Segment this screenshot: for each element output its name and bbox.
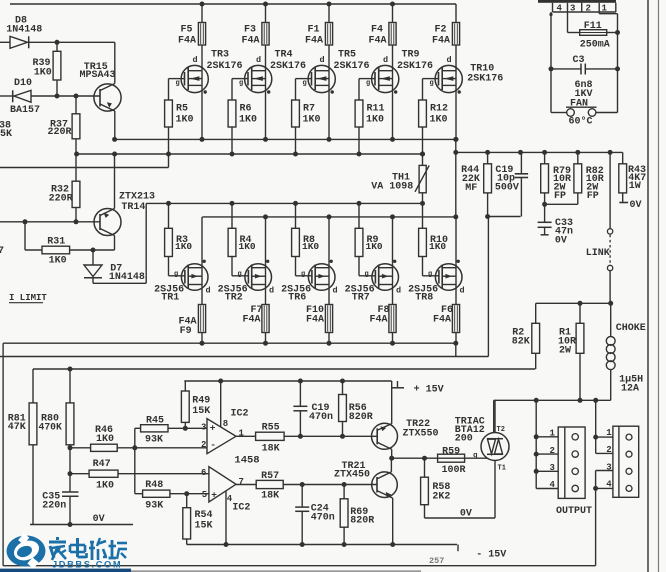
svg-text:T1: T1 — [498, 465, 506, 473]
svg-text:15K: 15K — [192, 406, 210, 417]
svg-text:+: + — [210, 423, 216, 434]
svg-text:18K: 18K — [262, 444, 280, 455]
svg-text:R7: R7 — [303, 104, 315, 115]
svg-text:TR7: TR7 — [352, 292, 370, 303]
svg-text:d: d — [206, 286, 211, 296]
svg-text:g: g — [239, 80, 243, 88]
svg-text:R55: R55 — [262, 423, 280, 434]
svg-text:d: d — [320, 55, 325, 65]
svg-text:1N4148: 1N4148 — [6, 24, 42, 35]
svg-text:2: 2 — [606, 445, 611, 455]
svg-text:1: 1 — [550, 429, 556, 439]
svg-text:F4A: F4A — [243, 314, 261, 325]
svg-text:D10: D10 — [14, 78, 32, 89]
svg-text:470n: 470n — [311, 512, 335, 523]
svg-text:F9: F9 — [180, 326, 192, 337]
svg-text:4: 4 — [550, 480, 556, 490]
svg-text:1K0: 1K0 — [34, 68, 52, 79]
svg-text:4: 4 — [557, 4, 563, 14]
svg-text:IC2: IC2 — [231, 409, 249, 420]
svg-text:1.5K: 1.5K — [0, 129, 12, 140]
svg-text:+: + — [211, 489, 217, 500]
svg-text:2: 2 — [201, 440, 206, 450]
svg-text:2SK176: 2SK176 — [334, 61, 370, 72]
svg-text:R5: R5 — [176, 104, 188, 115]
svg-text:7: 7 — [0, 246, 4, 257]
svg-text:1K0: 1K0 — [175, 241, 192, 252]
svg-text:0V: 0V — [460, 509, 472, 520]
svg-text:3: 3 — [550, 463, 555, 473]
svg-text:TR3: TR3 — [211, 50, 229, 61]
svg-text:C3: C3 — [573, 55, 585, 66]
svg-text:TR4: TR4 — [275, 50, 293, 61]
svg-text:ZTX213: ZTX213 — [119, 192, 155, 203]
svg-text:T2: T2 — [497, 426, 505, 434]
svg-text:g: g — [176, 80, 180, 88]
svg-text:R47: R47 — [93, 459, 111, 470]
svg-text:15K: 15K — [195, 521, 213, 532]
svg-text:1K0: 1K0 — [96, 434, 114, 445]
svg-text:47K: 47K — [8, 422, 26, 433]
svg-text:MPSA43: MPSA43 — [80, 70, 116, 81]
svg-text:CHOKE: CHOKE — [616, 323, 646, 334]
svg-text:60°C: 60°C — [569, 116, 593, 128]
svg-text:93K: 93K — [145, 435, 163, 446]
svg-text:220R: 220R — [48, 127, 72, 138]
svg-text:12A: 12A — [621, 384, 639, 395]
svg-text:2W: 2W — [559, 345, 571, 356]
svg-text:IC2: IC2 — [232, 503, 250, 514]
svg-text:2SK176: 2SK176 — [467, 74, 503, 85]
svg-text:d: d — [256, 55, 261, 65]
svg-text:0V: 0V — [93, 514, 105, 525]
svg-text:BA157: BA157 — [10, 105, 40, 116]
svg-text:F4A: F4A — [242, 36, 260, 47]
svg-text:g: g — [430, 80, 434, 88]
svg-text:d: d — [447, 55, 452, 65]
svg-text:500V: 500V — [495, 182, 519, 193]
svg-text:1K0: 1K0 — [239, 241, 256, 252]
svg-text:R45: R45 — [146, 416, 164, 427]
svg-text:470n: 470n — [309, 412, 333, 423]
svg-text:200: 200 — [455, 434, 473, 445]
svg-text:ZTX550: ZTX550 — [403, 429, 439, 440]
svg-text:g: g — [301, 271, 305, 279]
svg-text:TR9: TR9 — [402, 50, 420, 61]
svg-text:1K0: 1K0 — [366, 115, 384, 126]
svg-text:1K0: 1K0 — [302, 241, 319, 252]
svg-text:250mA: 250mA — [580, 40, 610, 51]
svg-text:F4A: F4A — [433, 314, 451, 325]
svg-text:F4A: F4A — [306, 314, 324, 325]
svg-text:5: 5 — [202, 490, 207, 500]
svg-text:7: 7 — [239, 477, 244, 487]
svg-text:d: d — [460, 286, 465, 296]
svg-text:FP: FP — [587, 191, 599, 202]
svg-text:1: 1 — [602, 4, 608, 14]
svg-text:470K: 470K — [39, 422, 62, 433]
svg-text:2SK176: 2SK176 — [270, 61, 306, 72]
svg-text:g: g — [428, 271, 432, 279]
svg-text:1458: 1458 — [234, 455, 259, 467]
svg-text:2SK176: 2SK176 — [207, 61, 243, 72]
svg-text:F4: F4 — [371, 25, 383, 36]
svg-text:- 15V: - 15V — [476, 550, 506, 561]
svg-text:2SK176: 2SK176 — [397, 61, 433, 72]
svg-text:F5: F5 — [181, 25, 193, 36]
svg-text:R6: R6 — [240, 104, 252, 115]
svg-text:OUTPUT: OUTPUT — [556, 506, 592, 517]
svg-text:1K0: 1K0 — [49, 256, 67, 267]
svg-text:VA 1098: VA 1098 — [371, 181, 413, 192]
svg-text:220n: 220n — [42, 501, 66, 512]
svg-text:82K: 82K — [512, 336, 530, 347]
svg-text:LINK: LINK — [586, 248, 610, 259]
svg-text:R12: R12 — [430, 104, 448, 115]
svg-text:2: 2 — [586, 4, 591, 14]
svg-text:ZTX450: ZTX450 — [334, 469, 370, 480]
svg-text:R54: R54 — [195, 510, 213, 521]
svg-text:F2: F2 — [435, 25, 447, 36]
svg-text:R31: R31 — [47, 236, 65, 247]
svg-text:FP: FP — [554, 191, 566, 202]
svg-text:8: 8 — [223, 419, 228, 429]
svg-text:TR2: TR2 — [225, 292, 243, 303]
svg-text:F1: F1 — [308, 25, 320, 36]
svg-text:6: 6 — [201, 468, 206, 478]
svg-text:18K: 18K — [261, 490, 279, 501]
svg-text:1K0: 1K0 — [303, 115, 321, 126]
svg-text:820R: 820R — [350, 516, 374, 527]
svg-text:1K0: 1K0 — [176, 115, 194, 126]
svg-text:820R: 820R — [349, 412, 373, 423]
svg-text:g: g — [238, 271, 242, 279]
svg-text:TR1: TR1 — [161, 292, 179, 303]
svg-text:TR6: TR6 — [288, 292, 306, 303]
svg-text:1K0: 1K0 — [430, 115, 448, 126]
svg-text:1K0: 1K0 — [96, 481, 114, 492]
svg-text:TR8: TR8 — [415, 292, 433, 303]
svg-text:R48: R48 — [145, 480, 163, 491]
svg-text:R59: R59 — [442, 446, 460, 457]
svg-text:g: g — [366, 80, 370, 88]
svg-text:1: 1 — [606, 428, 612, 438]
svg-text:93K: 93K — [145, 501, 163, 512]
svg-text:d: d — [269, 286, 274, 296]
svg-text:g: g — [473, 452, 478, 460]
svg-text:g: g — [365, 271, 369, 279]
svg-text:FAN: FAN — [570, 99, 588, 110]
svg-text:+ 15V: + 15V — [414, 384, 444, 395]
svg-text:F4A: F4A — [178, 36, 196, 47]
svg-text:2K2: 2K2 — [432, 491, 450, 502]
svg-text:220R: 220R — [49, 193, 73, 204]
svg-text:TR14: TR14 — [121, 202, 145, 213]
svg-text:R57: R57 — [261, 471, 279, 482]
svg-text:1K0: 1K0 — [239, 115, 257, 126]
svg-text:0V: 0V — [555, 236, 567, 247]
svg-text:MF: MF — [465, 183, 477, 194]
svg-text:d: d — [383, 55, 388, 65]
svg-text:3: 3 — [201, 423, 206, 433]
svg-text:F4A: F4A — [305, 36, 323, 47]
svg-text:TR5: TR5 — [338, 50, 356, 61]
svg-text:F3: F3 — [244, 25, 256, 36]
svg-text:100R: 100R — [442, 465, 466, 476]
svg-text:R11: R11 — [367, 104, 385, 115]
svg-text:257: 257 — [429, 556, 444, 566]
svg-text:1K0: 1K0 — [429, 241, 446, 252]
svg-text:F4A: F4A — [369, 36, 387, 47]
svg-text:3: 3 — [570, 4, 575, 14]
svg-text:F4A: F4A — [370, 314, 388, 325]
svg-text:2: 2 — [550, 446, 555, 456]
svg-text:d: d — [193, 55, 198, 65]
svg-text:F11: F11 — [584, 21, 602, 32]
svg-text:g: g — [303, 80, 307, 88]
svg-text:d: d — [333, 286, 338, 296]
svg-text:-: - — [210, 440, 216, 451]
svg-text:F4A: F4A — [432, 36, 450, 47]
svg-text:JDBBS.COM: JDBBS.COM — [52, 559, 122, 569]
svg-text:g: g — [174, 271, 178, 279]
svg-text:I LIMIT: I LIMIT — [9, 293, 47, 303]
svg-text:d: d — [396, 286, 401, 296]
svg-text:1K0: 1K0 — [366, 241, 383, 252]
svg-text:1W: 1W — [629, 181, 641, 192]
svg-text:1N4148: 1N4148 — [109, 272, 145, 283]
svg-text:0V: 0V — [630, 200, 642, 211]
